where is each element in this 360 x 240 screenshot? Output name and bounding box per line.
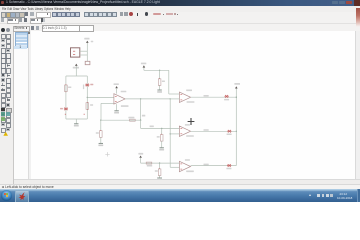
wire VCC stub B (140, 158, 142, 163)
canvas (31, 31, 355, 179)
supply VCC arrow rail (235, 86, 238, 88)
label R8 value (155, 170, 158, 172)
status bar (0, 184, 360, 191)
wire R8 to gnd (159, 176, 161, 179)
small symbol box B2 (85, 61, 90, 64)
ground GND R6 (157, 90, 162, 93)
label D2 vertical value (83, 85, 84, 90)
wire A output to rail (191, 130, 237, 132)
wire bridge top (66, 75, 87, 77)
menu bar (0, 6, 360, 13)
label net OUT3 (204, 164, 209, 166)
ground GND R3 (98, 143, 103, 146)
junction B divider tap (159, 162, 160, 163)
label L2 name (227, 134, 232, 136)
show desktop (357, 189, 360, 202)
wire to B +input (141, 162, 180, 164)
wire output rail vertical (235, 89, 237, 166)
junction feedback divider (100, 120, 101, 121)
label LM358N A (186, 135, 194, 137)
wire U1 -input down (100, 103, 102, 120)
wire R6 to gnd (159, 85, 161, 89)
label VCC text B (138, 153, 143, 155)
label LM358N U2 (187, 101, 195, 103)
ground GND U1 (114, 111, 119, 114)
wire bridge bottom (66, 118, 87, 120)
junction J1 on U1 output (140, 98, 141, 99)
wire R3 to gnd (100, 137, 102, 143)
label IC2B (185, 159, 190, 161)
LED L3 on B output (227, 164, 231, 167)
label net name at J2 (142, 115, 145, 117)
label R2 value (90, 104, 93, 106)
resistor R1 bridge left (65, 84, 68, 92)
toolbar rows (0, 12, 360, 19)
resistor R8 B divider (158, 168, 161, 176)
sheets panel (14, 31, 33, 179)
label VCC text rail (234, 83, 240, 85)
wire into U2 +input (169, 93, 180, 95)
window title bar (0, 0, 360, 6)
wire divider to U2 +input down (168, 70, 170, 94)
wire bridge right (86, 76, 88, 119)
wire divider down (100, 120, 102, 130)
label L3 name (226, 168, 231, 170)
taskbar app button (15, 190, 29, 203)
supply VCC arrow at sensor (86, 41, 89, 43)
wire B output to rail (191, 165, 237, 167)
LED L2 on A output (227, 130, 231, 133)
label VCC text bridge (73, 67, 79, 69)
wire U1 gnd stub (116, 104, 118, 110)
supply VCC arrow top (143, 65, 146, 67)
label L1 name (224, 99, 229, 101)
wire VCC rail horizontal (144, 69, 169, 71)
wire bridge left (65, 76, 67, 119)
wire feedback horizontal (101, 119, 141, 121)
label net OUT2 (204, 129, 209, 131)
resistor R5 A divider (160, 134, 163, 142)
label LM358N B (186, 171, 194, 173)
junction bridge right mid (87, 97, 88, 98)
wire B tap down (159, 163, 161, 169)
wire S1 pin2 to rail (80, 54, 88, 56)
wire V2 vertical bus (169, 99, 171, 167)
label VCC text U1 (114, 83, 119, 85)
resistor R4 feedback (130, 119, 136, 121)
label R1 value (68, 87, 71, 89)
supply VCC arrow B (139, 156, 142, 158)
wire bridge gnd stub (75, 119, 77, 123)
wire into A -input (170, 133, 179, 135)
ground GND bridge (74, 124, 79, 127)
junction divider tap (159, 70, 160, 71)
op-amp A IC2A (179, 126, 190, 136)
label net OUT1 (204, 95, 209, 97)
wire VCC stub to bridge top (75, 66, 77, 76)
wire to opamp A +input (141, 127, 180, 129)
label IC1A (121, 91, 127, 93)
label R4 value (128, 117, 134, 119)
label VCC text top (141, 63, 146, 65)
wire R5 to gnd (161, 141, 163, 147)
cursor crosshair (188, 118, 195, 125)
ground GND R8 (157, 177, 162, 179)
pin mark bridge bottom right (84, 113, 85, 116)
wire A tap down (161, 128, 163, 134)
label net at A input (150, 126, 154, 128)
op-amp U1 IC1A (114, 94, 125, 104)
label LM358N U1 (121, 105, 129, 107)
label D2 name (90, 84, 93, 86)
wire V2 into B -input (170, 166, 179, 168)
label IC2A (185, 124, 190, 126)
element14 red logo strip (356, 8, 360, 27)
wire U2 output to rail (191, 96, 237, 98)
label IC1B (186, 90, 192, 92)
wire tap down to R6 (159, 70, 161, 79)
junction rail row1 (236, 97, 237, 98)
wire VCC arrow down to box B2 (86, 43, 88, 61)
wire U1 output to U2 -input (125, 98, 170, 100)
supply VCC arrow U1 (115, 86, 118, 88)
label R3 value (96, 132, 99, 134)
resistor R2 bridge right (86, 102, 89, 110)
label R5 value (157, 136, 160, 138)
wire J2 down (140, 120, 142, 128)
label D1 name (60, 108, 63, 110)
start orb (1, 190, 12, 201)
junction rail row2 (236, 131, 237, 132)
junction V2 to A -input (170, 133, 171, 134)
op-amp B IC2B (179, 161, 190, 171)
wire U1 -input horizontal (101, 102, 114, 104)
resistor R3 to ground (100, 130, 103, 138)
pin mark bridge bottom left (65, 113, 66, 116)
label VCC text above arrow (84, 38, 89, 40)
op-amp U2 IC1B (179, 92, 190, 102)
wire bridge to U1 +input (87, 96, 114, 98)
resistor R6 divider (158, 78, 161, 86)
label R7 value (147, 165, 152, 167)
LED L1 on U2 output (225, 95, 229, 98)
sensor box S1 (71, 48, 80, 57)
resistor R7 series B (146, 162, 152, 164)
windows taskbar (0, 189, 360, 202)
label R6 value (162, 81, 165, 83)
LED D2 bridge right (85, 84, 89, 87)
wire VCC stub top (143, 68, 145, 71)
junction A divider tap (161, 128, 162, 129)
supply VCC arrow bridge (75, 64, 78, 66)
junction U2 input branch (170, 98, 171, 99)
wire VCC stub U1 (116, 88, 118, 93)
label stray text (91, 41, 93, 42)
ground GND R5 (159, 148, 164, 151)
left tool palette (0, 31, 14, 186)
wire S1 pin1 to VCC rail (80, 50, 88, 52)
origin cross marker (105, 152, 109, 156)
LED D1 bridge left (64, 108, 68, 111)
junction J2 (140, 119, 141, 120)
wire into U2 -input (170, 98, 179, 100)
wire J1 down to J2 (140, 99, 142, 120)
